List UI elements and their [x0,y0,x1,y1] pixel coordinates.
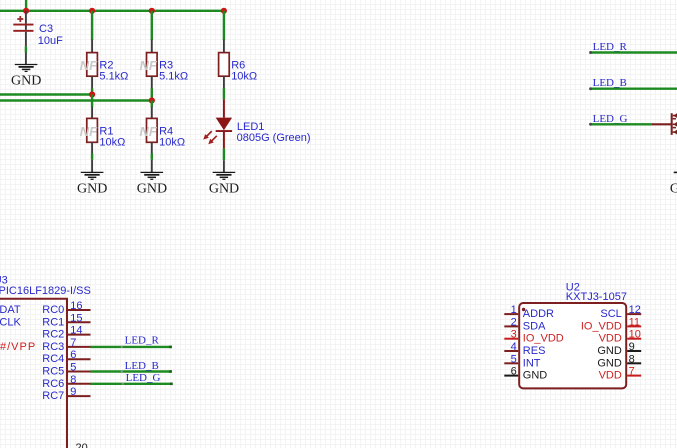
pin RC0 (16) [42,300,90,316]
wire R1 to GND [91,154,93,160]
ground GND (C3) [11,53,41,89]
resistor R1 [80,107,126,154]
wire LED_B (U3) [91,370,172,372]
IC U2 outline [519,303,626,388]
svg-text:6: 6 [70,349,76,361]
pin 5 INT [504,353,541,369]
svg-text:10: 10 [629,329,641,341]
svg-text:15: 15 [70,312,82,324]
svg-text:GND: GND [137,181,167,196]
pin RC4 (6) [42,349,90,365]
svg-text:RC3: RC3 [42,341,64,353]
wire C3 to GND [25,46,27,52]
junction C3/VDD [23,8,29,14]
resistor R2 [80,40,129,89]
pin RC7 (9) [42,386,90,402]
svg-text:SDA: SDA [523,320,546,332]
svg-text:1: 1 [511,304,517,316]
svg-text:GND: GND [523,370,548,382]
svg-text:GND: GND [209,181,239,196]
wire ICSPDAT (horizontal) [0,93,92,95]
svg-text:10kΩ: 10kΩ [99,136,125,148]
svg-text:SCL: SCL [600,308,621,320]
pin 6 GND [504,366,547,382]
wire LED_G (U3) [91,383,172,385]
wire R1 top [91,95,93,108]
svg-text:6: 6 [511,366,517,378]
svg-text:5.1kΩ: 5.1kΩ [159,71,188,83]
IC U2 pin-1 marker [522,308,525,311]
svg-text:5.1kΩ: 5.1kΩ [99,71,128,83]
svg-text:LED_B: LED_B [125,360,159,372]
svg-text:RC6: RC6 [42,378,64,390]
svg-text:IO_VDD: IO_VDD [581,320,622,332]
junction R2/VDD [89,8,95,14]
svg-text:9: 9 [70,386,76,398]
svg-text:NF: NF [140,58,158,73]
pin 10 VDD [599,329,642,345]
wire R2 top [91,11,93,40]
svg-text:RC7: RC7 [42,390,64,402]
svg-text:RC4: RC4 [42,353,64,365]
wire ICSPCLK (horizontal) [0,99,152,101]
wire LED1 to GND [223,149,225,161]
junction R6/VDD [221,8,227,14]
pin RC3 (7) [42,337,90,353]
svg-text:C3: C3 [39,23,53,35]
svg-text:KXTJ3-1057: KXTJ3-1057 [566,291,627,303]
svg-text:ADDR: ADDR [523,308,554,320]
svg-text:IO_VDD: IO_VDD [523,333,564,345]
svg-text:RC2: RC2 [42,329,64,341]
svg-text:LED_R: LED_R [125,335,160,347]
svg-text:LED_G: LED_G [593,113,628,125]
svg-text:12: 12 [629,304,641,316]
svg-text:LED_G: LED_G [126,372,161,384]
pin RC1 (15) [42,312,90,328]
ground GND (LED1) [209,160,239,196]
resistor R6 [219,40,258,89]
resistor R4 [140,107,186,154]
svg-text:2: 2 [511,316,517,328]
svg-text:11: 11 [629,316,640,328]
svg-text:3: 3 [511,329,517,341]
pin 2 SDA [504,316,546,332]
pin 9 GND [597,341,641,357]
svg-text:GND: GND [11,73,41,88]
svg-text:GND: GND [597,345,622,357]
wire R3 bottom [151,88,153,100]
wire LED_R (right) [590,51,677,53]
wire R4 top [151,101,153,108]
pin 7 VDD [599,366,642,382]
svg-text:DAT: DAT [0,304,21,316]
wire R3 top [151,11,153,40]
junction R2/R1 [89,91,95,97]
svg-text:5: 5 [70,362,76,374]
svg-text:#/VPP: #/VPP [0,341,36,353]
svg-text:16: 16 [70,300,82,312]
svg-text:RC1: RC1 [42,316,64,328]
pin 4 RES [504,341,545,357]
wire R6 to LED1 [223,88,225,99]
svg-text:LED_R: LED_R [593,41,628,53]
pin RC6 (8) [42,374,90,390]
wire LED_B (right) [590,87,677,89]
junction R3/R4 [149,97,155,103]
wire LED_R (U3) [91,346,172,348]
svg-text:5: 5 [511,353,517,365]
ground GND (R1) [77,160,107,196]
svg-text:7: 7 [629,366,635,378]
ground GND (R4) [137,160,167,196]
LED LED1 [201,99,310,148]
wire C3 column up to edge [25,0,27,11]
svg-text:10kΩ: 10kΩ [159,136,185,148]
pin 1 ADDR [504,304,554,320]
svg-text:GND: GND [597,357,622,369]
pin RC5 (5) [42,362,90,378]
pin RC2 (14) [42,325,90,341]
svg-text:NF: NF [80,58,98,73]
pin 12 SCL [600,304,641,320]
svg-text:NF: NF [140,124,158,139]
svg-text:CLK: CLK [0,316,21,328]
svg-text:10uF: 10uF [38,35,63,47]
wire R6 top [223,11,225,40]
svg-text:VDD: VDD [599,370,622,382]
capacitor C3 [13,11,63,47]
svg-text:VDD: VDD [599,333,622,345]
wire VDD bus (top horizontal) [0,10,225,12]
junction R3/VDD [149,8,155,14]
wire LED_G pin segment (maroon) [652,123,671,125]
svg-text:PIC16LF1829-I/SS: PIC16LF1829-I/SS [0,285,91,297]
svg-text:14: 14 [70,325,82,337]
pin 8 GND [597,353,641,369]
svg-text:RES: RES [523,345,546,357]
pin 3 IO_VDD [504,329,564,345]
svg-text:0805G (Green): 0805G (Green) [237,132,311,144]
wire R4 to GND [151,154,153,160]
svg-text:9: 9 [629,341,635,353]
IC U3 outline (partial) [0,299,67,448]
svg-text:4: 4 [511,341,517,353]
pin 11 IO_VDD [581,316,641,332]
svg-text:RC0: RC0 [42,304,64,316]
resistor R3 [140,40,189,89]
svg-text:20: 20 [76,442,88,448]
svg-text:8: 8 [70,374,76,386]
svg-text:GND: GND [77,181,107,196]
wire R2 bottom [91,88,93,94]
wire LED_G (right) [590,123,653,125]
svg-text:10kΩ: 10kΩ [231,71,257,83]
svg-text:LED_B: LED_B [593,77,627,89]
svg-text:INT: INT [523,357,541,369]
svg-text:NF: NF [80,124,98,139]
ground GND (right edge, partial) [670,172,677,196]
svg-text:8: 8 [629,353,635,365]
LED RGB package (partial, right edge) [671,113,677,135]
svg-text:RC5: RC5 [42,366,64,378]
svg-text:7: 7 [70,337,76,349]
svg-text:GND: GND [670,181,677,196]
